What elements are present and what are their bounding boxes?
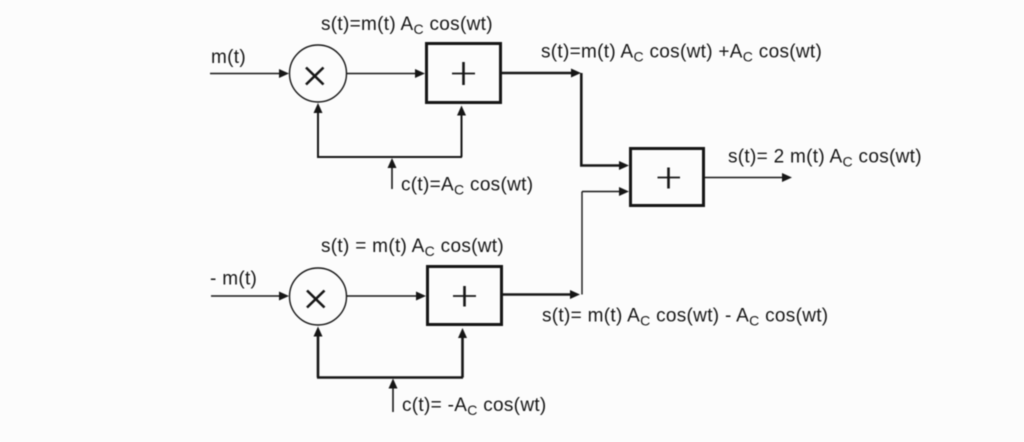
wire carrier feedback top: into M1 bottom (314, 103, 467, 157)
wire A2 output up to adder A3 input 2 (582, 187, 629, 295)
svg-text:s(t)= m(t) AC cos(wt) - AC cos: s(t)= m(t) AC cos(wt) - AC cos(wt) (542, 306, 828, 329)
multiplier M2 (290, 268, 347, 325)
multiplier M1 (290, 45, 347, 102)
wire c(t) source arrow bottom (389, 379, 398, 413)
wire c(t) source arrow top (388, 158, 397, 189)
wire A3 output (704, 173, 792, 182)
wire carrier feedback bottom: into M2 bottom (314, 327, 468, 378)
adder A1 (427, 44, 501, 103)
svg-text:c(t)=AC cos(wt): c(t)=AC cos(wt) (401, 175, 533, 198)
svg-text:m(t): m(t) (211, 47, 246, 68)
adder A3 (combiner) (631, 149, 704, 206)
adder A2 (428, 267, 502, 325)
svg-text:s(t) = m(t) AC cos(wt): s(t) = m(t) AC cos(wt) (321, 236, 504, 259)
wire M1 output to adder A1 (347, 69, 426, 78)
svg-text:s(t)=m(t) AC cos(wt) +AC cos(w: s(t)=m(t) AC cos(wt) +AC cos(wt) (541, 42, 822, 65)
wire A2 output (thick) to vertical riser (503, 290, 580, 299)
wire m(t) input to multiplier M1 (210, 69, 289, 78)
wire A1 output (thick) to adder A3 input 1 (501, 69, 629, 171)
svg-text:s(t)=m(t) AC cos(wt): s(t)=m(t) AC cos(wt) (321, 14, 493, 37)
wire -m(t) input to multiplier M2 (211, 292, 289, 301)
svg-text:- m(t): - m(t) (210, 269, 257, 290)
wire M2 output to adder A2 (347, 292, 427, 301)
svg-text:s(t)= 2 m(t) AC cos(wt): s(t)= 2 m(t) AC cos(wt) (728, 147, 922, 170)
